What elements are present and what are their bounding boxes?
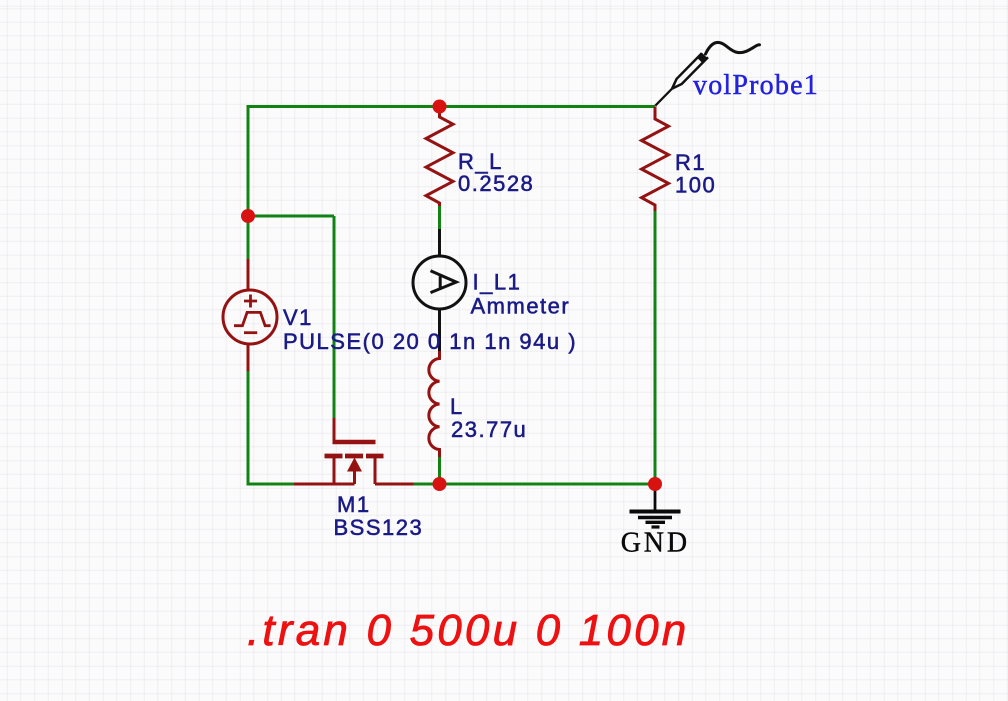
svg-text:I_L1: I_L1 — [473, 270, 522, 295]
wire gate branch horizontal — [248, 215, 334, 218]
svg-text:BSS123: BSS123 — [334, 515, 424, 540]
wire L bottom — [438, 456, 441, 484]
wire gate branch vertical — [333, 216, 336, 418]
probe cable — [706, 42, 760, 54]
junction node B left — [241, 209, 255, 223]
junction node GND — [648, 477, 662, 491]
junction node C bottom — [433, 477, 447, 491]
svg-text:L: L — [450, 394, 464, 419]
ground — [630, 484, 681, 527]
wire top rail — [248, 105, 655, 108]
wire R_L to ammeter — [438, 205, 441, 229]
svg-text:volProbe1: volProbe1 — [693, 70, 819, 101]
svg-text:.tran 0 500u 0 100n: .tran 0 500u 0 100n — [247, 606, 689, 655]
ammeter I_L1 — [413, 229, 466, 351]
svg-text:0.2528: 0.2528 — [458, 171, 534, 196]
junction node A top — [433, 100, 447, 114]
resistor R1 — [642, 107, 669, 212]
wire V1 bottom — [247, 370, 250, 486]
svg-text:V1: V1 — [283, 305, 313, 330]
svg-text:Ammeter: Ammeter — [471, 294, 571, 319]
wire bottom right rail — [413, 483, 655, 486]
resistor R_L — [426, 107, 453, 207]
inductor L — [429, 351, 440, 457]
svg-text:GND: GND — [621, 528, 690, 559]
svg-text:PULSE(0 20 0 1n 1n 94u ): PULSE(0 20 0 1n 1n 94u ) — [283, 329, 577, 354]
svg-text:23.77u: 23.77u — [451, 417, 527, 442]
probe volProbe1 — [653, 52, 708, 108]
svg-text:100: 100 — [675, 173, 716, 198]
wire left vertical — [247, 105, 250, 259]
wire bottom left — [248, 483, 296, 486]
transistor M1 — [294, 418, 414, 484]
svg-text:R1: R1 — [675, 150, 706, 175]
svg-text:M1: M1 — [337, 492, 371, 517]
voltage source V1 — [223, 259, 277, 371]
wire R1 bottom — [654, 211, 657, 484]
